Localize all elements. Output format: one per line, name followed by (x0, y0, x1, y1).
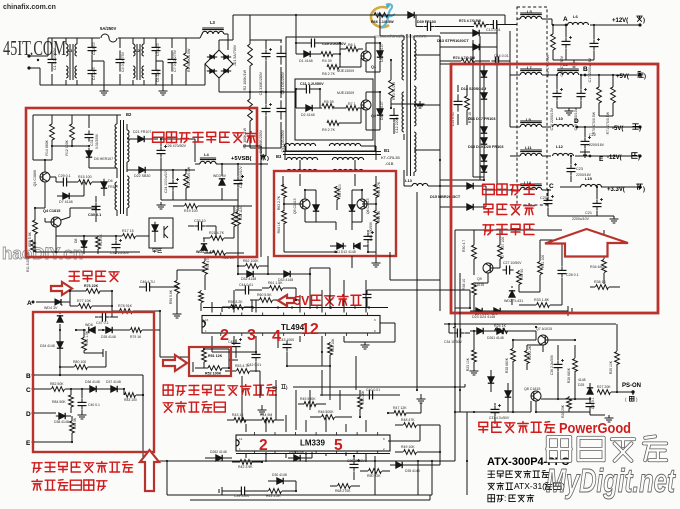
ground c40 (81, 412, 83, 415)
zener WD2 TL431 (511, 294, 513, 297)
resistor R63 2.7K (282, 185, 287, 198)
battery sym c22 (580, 151, 590, 153)
svg-text:R70 470/0.5W: R70 470/0.5W (592, 111, 596, 134)
transformer B2 secondary (127, 130, 129, 162)
resistor R8 2.7K (327, 65, 339, 70)
transistor Q8 C1815 (531, 391, 541, 401)
svg-text:): ) (643, 18, 645, 24)
wire aux q3 net (44, 160, 46, 172)
svg-text:Q7 A1015: Q7 A1015 (536, 327, 552, 331)
wire mid column (241, 376, 243, 420)
resistor R33 1.8K (537, 303, 550, 308)
resistor R50 22K (369, 469, 382, 474)
svg-text:R32 50: R32 50 (520, 269, 524, 280)
wire r51 net (228, 349, 230, 368)
svg-text:R45 500K: R45 500K (300, 397, 316, 401)
capacitor C9 330u/250V (265, 104, 267, 108)
diode D14a (483, 68, 485, 71)
svg-text:R54 10K: R54 10K (331, 338, 335, 352)
junction dots mid (283, 203, 285, 205)
wire B1 sec taps (414, 54, 440, 56)
ground 3v3 (548, 215, 597, 217)
svg-text:C36 2.2u/50V: C36 2.2u/50V (550, 354, 554, 375)
capacitor C44 0.01 (241, 289, 245, 291)
svg-text:R42 3.9K: R42 3.9K (238, 465, 253, 469)
ground primary (419, 101, 421, 104)
svg-text:R67 100: R67 100 (338, 184, 342, 197)
inductor L9 (520, 124, 542, 127)
resistor R58 8.2K (231, 305, 244, 310)
ground EMI mid (156, 60, 163, 62)
wire to gnd primary (391, 103, 420, 105)
resistor R68 470/0.5W (551, 34, 556, 50)
wire EMI top rail (47, 38, 49, 56)
diode D26z (589, 391, 591, 394)
capacitor C1 0.22/250V (51, 50, 53, 59)
diode D34 4148 (59, 339, 61, 342)
svg-text:D32 4148: D32 4148 (241, 277, 256, 281)
diode D2 4148 (303, 107, 306, 109)
svg-text:): ) (643, 187, 645, 193)
svg-text:E: E (26, 440, 31, 447)
svg-text:R23 10K: R23 10K (466, 357, 470, 371)
svg-text:A: A (563, 16, 568, 23)
zener WD6 (92, 329, 95, 331)
wire lm339 up (245, 424, 247, 432)
svg-text:D8: D8 (74, 238, 78, 243)
svg-text:R71 270/0.5W: R71 270/0.5W (606, 111, 610, 134)
resistor R5 39 (322, 104, 334, 109)
svg-text:): ) (638, 155, 640, 161)
capacitor C13 0.01 (489, 24, 493, 26)
capacitor C14 0.01 (491, 60, 495, 62)
IC U2 LM339 (236, 435, 390, 451)
diode D1 4148 (301, 53, 304, 55)
diode D16 (483, 124, 485, 127)
logo swirl cyan (381, 4, 392, 28)
svg-text:L13: L13 (405, 178, 413, 183)
capacitor C46 4.7u (142, 286, 146, 288)
svg-text:R34 640: R34 640 (590, 265, 604, 269)
svg-text:R80 100: R80 100 (73, 360, 86, 364)
ground 5v filter (557, 107, 581, 109)
transistor Q5 C1815 (300, 199, 310, 209)
wire EMI top rail 2 (118, 37, 200, 39)
svg-text:C11 2.2U/50V: C11 2.2U/50V (300, 82, 324, 86)
diode D39 FR103 (405, 14, 408, 16)
svg-text:D25: D25 (578, 383, 584, 387)
svg-text:): ) (267, 156, 269, 162)
resistor R10 51/2W (389, 80, 394, 98)
transformer B3 winding top (284, 143, 315, 146)
svg-text:C23: C23 (576, 167, 583, 171)
svg-text:+5VSB(: +5VSB( (231, 156, 252, 162)
resistor R53 4.7K (237, 369, 250, 374)
svg-text:C37 4.7u/50V: C37 4.7u/50V (489, 416, 510, 420)
node C (511, 189, 514, 192)
ground Y-caps (103, 88, 105, 91)
wire tl lm verticals (275, 380, 277, 420)
svg-text:14: 14 (239, 437, 243, 441)
svg-text:R15 100: R15 100 (78, 175, 92, 179)
svg-text:R66 1K: R66 1K (377, 210, 381, 222)
svg-text:www.chinafixbbs.com: www.chinafixbbs.com (373, 34, 427, 40)
diode D21 FR107 (135, 138, 138, 140)
capacitor C46b 100/50V (367, 232, 369, 236)
red box protection (33, 312, 154, 452)
capacitor C26 470/50V (160, 146, 162, 150)
footer line3 (488, 482, 495, 484)
diode D7 4148 (60, 195, 63, 197)
resistor R48 47K (404, 423, 417, 428)
svg-text:2: 2 (383, 447, 385, 451)
svg-text:C6 2200: C6 2200 (156, 69, 160, 82)
wire drive top links (299, 174, 301, 186)
svg-text:C7 0.22/275V: C7 0.22/275V (173, 49, 177, 72)
svg-text:D13 STPR1020CT: D13 STPR1020CT (437, 39, 469, 43)
wire aux q4 net (35, 207, 45, 209)
resistor R81 1.5K (82, 338, 87, 351)
wire q1 links (296, 42, 305, 44)
junction dots rails (552, 24, 554, 26)
svg-text:(: ( (625, 397, 627, 402)
resistor R34 640 (602, 260, 607, 273)
svg-text:R82 50K: R82 50K (50, 382, 64, 386)
svg-text:R66 1.1/0.5W: R66 1.1/0.5W (371, 20, 394, 24)
wire drive mid (284, 203, 300, 205)
wire right bus x440 (439, 207, 441, 311)
svg-text:C24 1000u/10V: C24 1000u/10V (164, 169, 168, 193)
resistor R71 270/0.5W (611, 87, 616, 103)
svg-text:Q2: Q2 (371, 114, 376, 118)
red text protect l2 (32, 480, 42, 482)
svg-text:D261 4148: D261 4148 (487, 336, 504, 340)
svg-text:B3: B3 (276, 154, 282, 159)
svg-text:R61 1.5K: R61 1.5K (268, 281, 283, 285)
svg-text:): ) (286, 385, 288, 390)
wire sampling (69, 291, 71, 306)
svg-text:D30 4148: D30 4148 (272, 473, 287, 477)
red text powergood (479, 421, 488, 423)
diode D35b 4148 (393, 464, 396, 466)
svg-text:D: D (26, 411, 31, 418)
svg-text:+3.3V(: +3.3V( (607, 187, 625, 193)
resistor R42 3.9K (240, 460, 252, 465)
svg-text:FR107: FR107 (108, 185, 118, 189)
diode D38 4148 (56, 415, 59, 417)
svg-text:C12 2200: C12 2200 (395, 117, 399, 133)
capacitor C5 2200 (155, 43, 157, 47)
red text resample l1 (163, 384, 173, 386)
wire drive top (379, 15, 381, 36)
resistor R77 10K (79, 304, 92, 309)
svg-text:C29 0.1: C29 0.1 (58, 174, 71, 178)
svg-text:C43 1000: C43 1000 (279, 338, 294, 342)
diode D50 FR503 (351, 202, 353, 205)
svg-text:C31: C31 (90, 139, 94, 146)
capacitor C37 4.7u/50V (494, 405, 496, 409)
resistor R28d 20K (567, 398, 572, 409)
diode D4 HER107 (379, 106, 381, 109)
svg-text:C46 4.7U: C46 4.7U (140, 280, 155, 284)
bridge rectifier JD1 5A/700V (205, 50, 233, 78)
red box aux keep (26, 108, 257, 257)
svg-text:D262 4148: D262 4148 (210, 450, 227, 454)
svg-text:22: 22 (500, 255, 504, 259)
svg-text:B: B (26, 373, 31, 380)
wire tl494 bottom net (212, 351, 256, 353)
zener WD4 3V (52, 301, 55, 303)
svg-text:R8 2.7K: R8 2.7K (322, 72, 336, 76)
svg-text:haoDIY.cn: haoDIY.cn (2, 244, 83, 263)
svg-text:R3 100K/1W: R3 100K/1W (243, 127, 247, 148)
resistor R14 680K (50, 124, 55, 140)
node A (565, 24, 568, 27)
wire aux fb (172, 226, 174, 236)
svg-text:12: 12 (301, 321, 319, 338)
svg-text:A: A (27, 300, 32, 307)
svg-text:C35 0.1: C35 0.1 (591, 397, 595, 409)
resistor R11 8.2/0.5W (31, 240, 36, 252)
svg-text:D: D (574, 118, 579, 125)
wire ps-on drop (632, 392, 634, 395)
svg-text:R30 4.7: R30 4.7 (462, 240, 466, 252)
resistor R43 10 (234, 418, 246, 423)
svg-text:ATX-31(: ATX-31( (514, 481, 545, 491)
svg-text:L4: L4 (204, 152, 209, 157)
svg-text:B: B (583, 66, 588, 73)
battery sym c39 (221, 487, 223, 495)
svg-text:8: 8 (374, 329, 376, 333)
node B (584, 74, 587, 77)
svg-text:L6: L6 (573, 14, 578, 19)
svg-text:C30 0.1: C30 0.1 (88, 213, 101, 217)
svg-text:PowerGood: PowerGood (559, 421, 631, 437)
resistor R68b 270K (338, 484, 351, 489)
svg-text:D3 HER107: D3 HER107 (380, 43, 384, 62)
svg-text:R4 39: R4 39 (322, 59, 332, 63)
label PS-ON (631, 390, 634, 393)
svg-text:C1 0.22/250V: C1 0.22/250V (53, 47, 57, 70)
svg-text:3: 3 (247, 327, 256, 344)
wire 3v3 block (474, 229, 562, 231)
capacitor C45 22u (235, 339, 237, 343)
wire mid risers2 (267, 256, 269, 274)
svg-text:D38 4148: D38 4148 (54, 420, 69, 424)
resistor R52a 47K (203, 262, 208, 275)
diode D13a (470, 32, 473, 34)
wire G gray long (340, 386, 465, 388)
capacitor C40 0.01 (365, 394, 369, 396)
svg-text:D1 4148: D1 4148 (299, 59, 313, 63)
svg-text:D11 D12 4148: D11 D12 4148 (334, 250, 356, 254)
red text protect l1 (32, 462, 42, 464)
red arrow sample right (51, 282, 72, 295)
svg-text:Q6 C1815: Q6 C1815 (366, 198, 370, 214)
svg-text:D21 FR107: D21 FR107 (133, 130, 151, 134)
inductor L7 (520, 72, 542, 75)
svg-text:R76 22K: R76 22K (84, 284, 99, 288)
capacitor C35 0.1 (589, 399, 591, 403)
capacitor C25b (237, 176, 239, 180)
capacitor C38 10/50V (353, 460, 355, 464)
wire x417 extension (416, 280, 418, 390)
capacitor C10 2.2u/50V (307, 42, 311, 44)
diode D32 4148 (244, 273, 247, 275)
capacitor C91 DG/250V (280, 100, 282, 108)
resistor R44 9M (262, 418, 274, 423)
red box r51 sample (189, 347, 231, 376)
svg-text:C26 470/50V: C26 470/50V (165, 144, 187, 148)
wire 5vsb rail ext (258, 163, 268, 165)
diode D6 FR107 (103, 179, 105, 182)
red box output remove (451, 64, 658, 313)
resistor R27 20K (598, 390, 611, 395)
capacitor C19 2200/10V (580, 89, 582, 93)
svg-text:R31 100: R31 100 (541, 255, 545, 268)
wire b3 to drive extras (329, 268, 331, 309)
resistor R1 680K/1.5W (184, 53, 189, 69)
diode D36 4148 (87, 388, 90, 390)
svg-text:R78 91K: R78 91K (118, 304, 133, 308)
svg-text:-5V(: -5V( (612, 126, 623, 132)
svg-text:D6: D6 (108, 179, 113, 183)
inductor L8 (557, 72, 579, 75)
svg-text:R28 680K: R28 680K (505, 357, 509, 373)
wire prot exit right (155, 329, 160, 331)
AC input terminal N (27, 66, 30, 69)
inductor L3 (202, 31, 224, 34)
wire hv bus drop 296 (295, 15, 297, 43)
resistor R70 470/0.5W (597, 87, 602, 103)
red arrow big up (545, 229, 628, 257)
transistor Q3 C3866 (40, 172, 50, 182)
svg-text:R79 1K: R79 1K (130, 335, 142, 339)
wire bottom bus 3 (190, 499, 430, 501)
wire bridge to rails (200, 84, 205, 86)
ground drive (375, 260, 377, 263)
capacitor C33 10 (194, 225, 198, 227)
wire bridge neg (218, 78, 220, 92)
svg-text:R83 100: R83 100 (124, 398, 137, 402)
red text aux keep (153, 131, 164, 133)
svg-text:2200/16V: 2200/16V (589, 143, 605, 147)
capacitor C17 2200u/16V (593, 39, 595, 43)
svg-text:D28 4148: D28 4148 (289, 450, 304, 454)
svg-text:R65 2.7K: R65 2.7K (377, 181, 381, 196)
svg-text:R52 100K: R52 100K (205, 372, 222, 376)
box snubber inner (295, 79, 373, 140)
diode D8 4148 (83, 238, 85, 241)
svg-text:Q9: Q9 (477, 277, 482, 281)
resistor R21 4.7K (211, 236, 224, 241)
zener WD1 TL431 (203, 247, 205, 250)
svg-text:5A/250V: 5A/250V (100, 26, 117, 31)
wire tl494 right (380, 322, 395, 324)
svg-text:R27 20K: R27 20K (597, 385, 611, 389)
diode D13b (470, 46, 473, 48)
wire drive bottom (283, 244, 285, 252)
svg-text:D15 MBR2045CT: D15 MBR2045CT (430, 195, 461, 199)
inductor L10 (553, 124, 574, 127)
svg-text:8: 8 (383, 437, 385, 441)
label opto (153, 248, 156, 250)
svg-text:C40 0.1: C40 0.1 (88, 403, 100, 407)
svg-text:C28 0.1: C28 0.1 (566, 273, 579, 277)
transformer B3 winding lower2 (286, 169, 317, 172)
svg-text:R63 2.7K: R63 2.7K (277, 195, 281, 210)
wire mid net1 (309, 268, 311, 274)
zener WD3 5V (221, 182, 223, 185)
capacitor C23 2200/16V (570, 164, 572, 168)
capacitor C30 0.1 (95, 202, 97, 206)
transistor Q6 C1815 (357, 199, 367, 209)
diode D5 HER107 (88, 148, 90, 151)
capacitor C27 10/50V (502, 269, 506, 271)
diode D14b (483, 90, 485, 93)
box snubber outer (286, 37, 375, 151)
capacitor C81 DG/250V (280, 45, 282, 53)
resistor R54 10K (328, 343, 333, 355)
svg-text:WD3 5V: WD3 5V (213, 174, 227, 178)
svg-text:C: C (549, 183, 554, 190)
diode D3 HER107 (379, 48, 381, 51)
svg-text:5: 5 (334, 437, 343, 454)
resistor R67 100 (335, 187, 340, 200)
capacitor C11 2.2u/50V (302, 88, 306, 90)
wire top bus right (417, 14, 505, 16)
svg-text:D39 FR103: D39 FR103 (417, 20, 436, 24)
svg-text:C81 DG/250V: C81 DG/250V (281, 71, 285, 94)
resistor R9 2.7K (327, 121, 339, 126)
svg-text:C44 0.01: C44 0.01 (239, 283, 253, 287)
battery sym prot (84, 352, 103, 354)
transistor Q2 MJE13009 (361, 100, 371, 110)
resistor R32 50 (517, 272, 522, 285)
resistor R12 100K (70, 124, 75, 140)
diode D27b (474, 330, 477, 332)
resistor R4 39 (321, 52, 333, 57)
resistor R56 5.6K (175, 281, 180, 294)
wire aux top feed (33, 114, 121, 116)
svg-text:C40 0.01: C40 0.01 (366, 388, 380, 392)
transistor Q1 MJE13009 (361, 51, 371, 61)
svg-text:D7 4148: D7 4148 (59, 200, 73, 204)
optocoupler internals (154, 222, 156, 225)
footer line4 (488, 494, 495, 496)
svg-text:L12: L12 (556, 144, 564, 149)
svg-text:JD1 5A/700V: JD1 5A/700V (233, 44, 237, 66)
resistor R88 270/0.5W (184, 174, 189, 188)
svg-text:C21: C21 (585, 211, 592, 215)
resistor R23 10K (472, 350, 477, 362)
capacitor C4 0.1/275V (119, 50, 121, 59)
wire q2 links (296, 88, 304, 90)
capacitor C21 2200u/10V (596, 199, 598, 203)
resistor R19 100 (185, 204, 198, 209)
wire 5vsb right bus (260, 146, 262, 257)
svg-text:R43 10: R43 10 (232, 413, 243, 417)
diode D22 SB30 (136, 169, 139, 171)
inductor L4 (200, 161, 216, 164)
svg-text:R2 100K/1W: R2 100K/1W (243, 69, 247, 90)
svg-text:L5: L5 (527, 9, 532, 14)
resistor R83 100 (125, 393, 136, 398)
wire bottom risers (374, 456, 376, 495)
svg-text:MJE13009: MJE13009 (337, 69, 354, 73)
resistor R41 2.2K (269, 489, 282, 494)
svg-text:R26 680K: R26 680K (567, 367, 571, 383)
